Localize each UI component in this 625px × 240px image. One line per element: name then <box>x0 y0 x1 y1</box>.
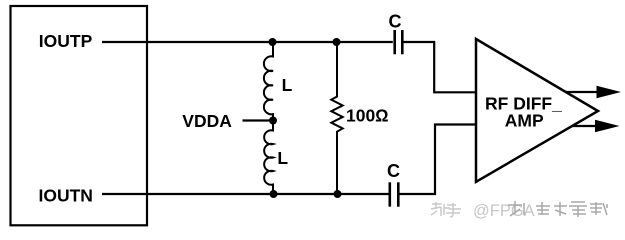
capacitor C (top) <box>395 30 403 54</box>
svg-text:IOUTP: IOUTP <box>39 31 93 51</box>
svg-text:C: C <box>389 11 402 31</box>
inductor L1 (top) <box>264 42 273 121</box>
resistor R 100ohm vertical branch <box>331 42 342 194</box>
svg-text:AMP: AMP <box>505 110 544 130</box>
wire top cap right plate to corner <box>402 42 475 92</box>
watermark zhihu <box>431 201 607 220</box>
wire VDDA feed <box>243 119 274 121</box>
arrowhead bottom output <box>595 120 620 133</box>
svg-text:100Ω: 100Ω <box>346 106 389 126</box>
junction dot VDDA center tap <box>269 117 277 125</box>
junction dot top resistor node <box>333 38 341 46</box>
capacitor C (bottom) <box>390 182 399 206</box>
inductor L2 (bottom) <box>264 121 273 195</box>
output wire bottom <box>572 125 601 127</box>
op-amp RF DIFF AMP triangle <box>476 39 598 182</box>
wire bottom cap right plate to corner <box>399 125 475 195</box>
output wire top <box>566 91 601 93</box>
wire IOUTP to top cap left plate <box>102 41 393 43</box>
junction dot top inductor node <box>269 38 277 46</box>
svg-text:IOUTN: IOUTN <box>39 185 93 205</box>
svg-text:C: C <box>387 161 400 181</box>
wire IOUTN to bottom cap left plate <box>102 193 389 195</box>
svg-text:@FPGA: @FPGA <box>473 202 535 220</box>
arrowhead top output <box>597 86 622 99</box>
svg-text:L: L <box>277 148 288 168</box>
svg-text:VDDA: VDDA <box>182 111 232 131</box>
svg-text:L: L <box>282 75 293 95</box>
junction dot bottom resistor node <box>334 190 342 198</box>
junction dot bottom inductor node <box>270 190 278 198</box>
DAC block outline <box>11 6 148 225</box>
